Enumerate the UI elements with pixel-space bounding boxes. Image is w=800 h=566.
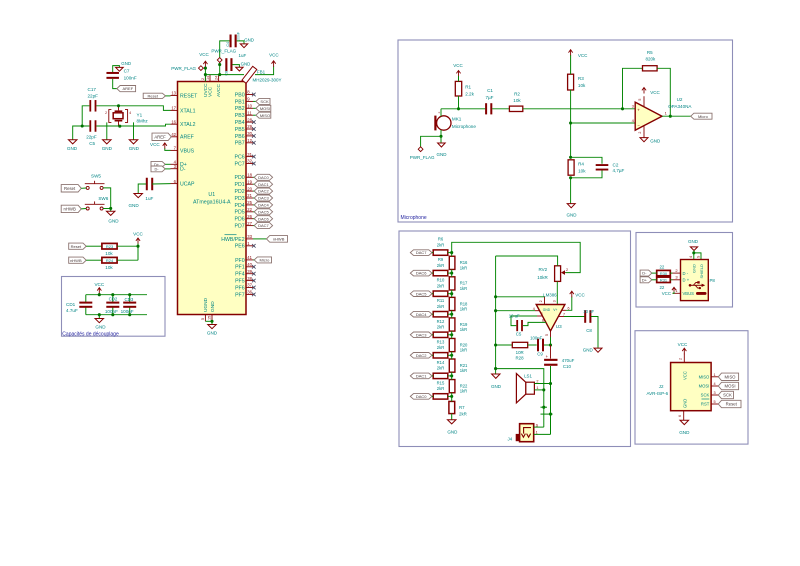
wire UCAP	[152, 183, 171, 185]
svg-text:AVR-ISP-6: AVR-ISP-6	[647, 391, 669, 396]
wire R23 to VCC	[117, 245, 138, 247]
junction ladder DAC0	[450, 395, 453, 398]
U1 right pin 22 PD5	[246, 211, 253, 213]
svg-text:GND: GND	[207, 331, 218, 336]
junction ladder DAC7	[450, 251, 453, 254]
svg-text:R23: R23	[106, 244, 114, 249]
svg-text:2: 2	[539, 300, 543, 302]
svg-text:VCC: VCC	[133, 232, 143, 237]
junction jack stub	[549, 413, 552, 416]
resistor R22 1kR	[449, 380, 455, 393]
svg-text:ATmega16U4-A: ATmega16U4-A	[193, 199, 231, 205]
ferrite bead FB1	[242, 66, 257, 83]
svg-text:CD1: CD1	[66, 302, 76, 307]
svg-text:10k: 10k	[105, 251, 113, 256]
wire bias to opamp -in	[571, 122, 636, 124]
svg-text:42: 42	[171, 132, 176, 137]
wire XTAL2 line	[96, 124, 170, 126]
ground under switches	[110, 208, 112, 211]
svg-text:GND: GND	[108, 219, 119, 224]
svg-text:GND: GND	[95, 324, 106, 329]
svg-text:GND: GND	[102, 146, 113, 151]
resistor R11 2kR	[433, 312, 448, 317]
svg-text:Y1: Y1	[137, 112, 143, 117]
resistor R14 2kR	[433, 373, 448, 378]
svg-text:1kR: 1kR	[460, 327, 467, 332]
svg-text:VCC: VCC	[150, 142, 160, 147]
wire Reset to SW5	[81, 187, 86, 189]
svg-text:C5: C5	[516, 331, 522, 336]
Y1 pin 3 wire	[118, 122, 120, 127]
wire SW6 out	[103, 208, 111, 210]
resistor R21 1kR	[449, 359, 455, 372]
svg-text:DAC0: DAC0	[416, 394, 427, 399]
global label SCK at PB1	[253, 100, 256, 102]
global label MOSI isp	[718, 382, 738, 389]
svg-text:D-: D-	[180, 167, 186, 173]
svg-text:U1: U1	[208, 192, 215, 198]
U1 right pin 25 PD4	[246, 204, 253, 206]
wire MK1 bottom	[440, 130, 442, 136]
global label Reset at SW5	[61, 185, 81, 192]
J4 pin S	[534, 426, 544, 428]
svg-text:MOSI: MOSI	[725, 384, 736, 389]
U1 left pin 42 AREF	[171, 136, 178, 138]
U1 right pin 32 PC7	[246, 163, 253, 165]
global label D- usb	[640, 270, 652, 276]
svg-text:SHIELD: SHIELD	[699, 264, 704, 279]
svg-text:VCC: VCC	[208, 86, 214, 97]
svg-text:DAC7: DAC7	[416, 250, 427, 255]
svg-text:SW5: SW5	[91, 174, 101, 179]
svg-text:MOSI: MOSI	[260, 106, 270, 111]
capacitor C9 100nF zobel	[537, 339, 539, 352]
wire R5 to output	[657, 68, 670, 116]
svg-text:AVCC: AVCC	[216, 83, 222, 97]
resistor R10 2kR	[433, 291, 448, 296]
svg-text:4,7µF: 4,7µF	[613, 168, 625, 173]
svg-text:10k: 10k	[578, 83, 586, 88]
svg-text:PD0: PD0	[235, 175, 245, 181]
svg-text:2kR: 2kR	[437, 345, 444, 350]
svg-text:VCC: VCC	[662, 291, 671, 296]
ground above C7	[113, 66, 120, 72]
svg-text:Microphone: Microphone	[401, 215, 427, 221]
wire mic line to C1	[441, 108, 485, 110]
J2 GND pin	[683, 411, 685, 421]
resistor R17 1kR	[449, 277, 455, 290]
wire RV2 top to rail	[496, 256, 558, 266]
U3 pin 5 output	[550, 331, 552, 337]
svg-text:C8: C8	[586, 328, 592, 333]
junction AVCC rail	[218, 73, 221, 76]
svg-text:R9: R9	[438, 257, 444, 262]
capacitor C10 470uF	[550, 345, 552, 359]
Y1 case pins to ground	[106, 122, 108, 139]
svg-text:VCC: VCC	[269, 52, 279, 57]
junction feedback tap	[621, 107, 624, 110]
svg-text:10R: 10R	[516, 350, 524, 355]
svg-text:U2: U2	[677, 97, 683, 102]
junction U1 GND	[210, 320, 213, 323]
svg-text:11: 11	[247, 110, 252, 115]
resistor R20 1kR	[449, 338, 455, 351]
wire U1 ground pins join	[205, 320, 212, 322]
svg-text:2kR: 2kR	[437, 325, 444, 330]
junction VCC flag	[204, 67, 207, 70]
ground under crystal left	[103, 140, 112, 144]
svg-text:37: 37	[247, 283, 252, 288]
ground under crystal right	[129, 140, 138, 144]
wire AVCC power rail	[205, 74, 244, 76]
svg-text:28: 28	[247, 117, 252, 122]
svg-text:7: 7	[563, 313, 565, 317]
ground left of caps	[68, 140, 77, 144]
svg-text:33: 33	[247, 234, 252, 239]
svg-text:PB6: PB6	[235, 134, 245, 140]
ground microphone	[440, 136, 442, 143]
wire ladder output to RV2	[452, 242, 581, 272]
svg-text:100nF: 100nF	[530, 336, 543, 341]
no-connect PF1	[252, 265, 256, 269]
svg-text:6: 6	[678, 415, 682, 417]
svg-text:470uF: 470uF	[562, 358, 575, 363]
global label DAC1 at PD1	[253, 183, 254, 185]
note box USB	[636, 233, 733, 308]
U1 right pin 9 PB1	[246, 100, 253, 102]
global label Micro output	[691, 113, 712, 119]
PWR_FLAG microphone	[418, 147, 423, 152]
wire C8 to ground	[591, 317, 598, 349]
svg-text:10kR: 10kR	[537, 275, 548, 280]
wire DAC2 row	[432, 354, 433, 356]
global label DAC7 at PD7	[253, 225, 254, 227]
svg-text:PF5: PF5	[235, 279, 245, 285]
global label nHWB at SW6	[61, 205, 81, 212]
J4 pin 1	[534, 433, 551, 435]
svg-text:RV2: RV2	[539, 267, 548, 272]
no-connect PC6	[252, 155, 256, 159]
svg-text:nHWB: nHWB	[70, 258, 82, 263]
wire SW5 to SW6 junction	[103, 188, 111, 208]
svg-text:RST: RST	[701, 402, 710, 407]
svg-text:PD2: PD2	[235, 189, 245, 195]
U1 right pin 27 PD7	[246, 225, 253, 227]
wire C2 bottom join R4	[571, 171, 602, 178]
svg-text:MISO: MISO	[260, 113, 270, 118]
U1 left pin 4 D+	[171, 163, 178, 165]
ground below U1	[211, 321, 213, 324]
svg-text:GND: GND	[129, 146, 140, 151]
resistor R9 2kR	[433, 270, 448, 275]
global label Reset pullup	[69, 243, 87, 249]
junction ladder DAC4	[450, 313, 453, 316]
junction ladder DAC6	[450, 272, 453, 275]
global label Micro at PF0	[253, 259, 254, 261]
svg-text:22pF: 22pF	[88, 94, 99, 99]
svg-text:VCC: VCC	[683, 371, 688, 380]
resistor R1 2.2k	[455, 81, 461, 96]
wire VCC down to UVCC	[204, 67, 206, 82]
U1 right pin 37 PF6	[246, 287, 253, 289]
global label MOSI at PB2	[253, 107, 256, 109]
global label D+ usb	[640, 277, 652, 283]
global label Reset isp	[718, 400, 741, 407]
svg-text:R30: R30	[660, 271, 668, 276]
wire C1 to R2	[492, 108, 509, 110]
svg-text:Reset: Reset	[726, 402, 738, 407]
global label nHWB pullup	[69, 257, 87, 263]
no-connect PB5	[252, 127, 256, 131]
svg-text:21: 21	[247, 193, 252, 198]
LS1 pin 1	[534, 389, 543, 391]
wire RV2 wiper down to +in	[556, 282, 558, 305]
wire speaker return from rail	[496, 369, 544, 428]
svg-text:38: 38	[247, 276, 252, 281]
junction USB ground	[692, 251, 695, 254]
svg-text:8: 8	[542, 319, 544, 323]
capacitor C8 1uF	[225, 58, 227, 71]
U1 right pin 11 PB3	[246, 114, 253, 116]
svg-text:1kR: 1kR	[460, 368, 467, 373]
junction decap rails	[98, 293, 101, 296]
junction switches	[109, 207, 112, 210]
global label nHWB at PE2	[253, 238, 267, 240]
svg-text:AREF: AREF	[123, 86, 134, 91]
speaker LS1	[526, 382, 535, 394]
U1 top pin 24 AVCC	[218, 75, 220, 82]
svg-text:PD1: PD1	[235, 182, 245, 188]
svg-text:LS1: LS1	[524, 374, 532, 379]
ground ladder	[447, 420, 456, 424]
svg-text:nHWB: nHWB	[273, 237, 285, 242]
wire R24 to VCC	[117, 259, 138, 261]
svg-text:2kR: 2kR	[437, 263, 444, 268]
svg-text:+: +	[438, 111, 440, 115]
RST overline	[702, 398, 710, 400]
svg-text:DAC2: DAC2	[258, 189, 269, 194]
svg-text:5: 5	[201, 318, 205, 320]
svg-text:2kR: 2kR	[459, 411, 467, 416]
J2 pin 4 MOSI	[711, 385, 718, 387]
svg-text:C2: C2	[613, 162, 619, 167]
junction ladder DAC5	[450, 292, 453, 295]
USB pin 3 D+	[673, 279, 681, 281]
svg-text:12: 12	[247, 138, 252, 143]
capacitor C4 top	[230, 35, 232, 48]
U3 pin 1 gain	[537, 315, 543, 317]
svg-text:R3: R3	[578, 76, 584, 81]
audio amplifier U3 LM386	[536, 305, 565, 331]
svg-text:100nF: 100nF	[105, 309, 118, 314]
U1 right pin 19 PD1	[246, 183, 253, 185]
svg-text:C7: C7	[124, 69, 130, 74]
svg-text:15: 15	[208, 316, 212, 320]
svg-text:GND: GND	[567, 213, 578, 218]
wire R30 to pin2	[670, 272, 672, 274]
svg-text:PB4: PB4	[235, 120, 245, 126]
svg-text:XTAL2: XTAL2	[180, 122, 196, 128]
no-connect PF7	[252, 293, 256, 297]
svg-text:6: 6	[568, 307, 570, 311]
svg-text:DAC3: DAC3	[416, 332, 427, 337]
svg-text:25: 25	[247, 200, 252, 205]
svg-text:PWR_FLAG: PWR_FLAG	[410, 155, 435, 160]
svg-text:GND: GND	[447, 429, 458, 434]
svg-text:24: 24	[214, 76, 218, 80]
svg-text:Capacités de découplage: Capacités de découplage	[62, 331, 119, 337]
svg-text:VCC: VCC	[199, 52, 209, 57]
capacitor C7 100nF	[106, 72, 119, 74]
svg-text:R31: R31	[660, 278, 667, 283]
U1 right pin 40 PF1	[246, 266, 253, 268]
svg-text:GND: GND	[683, 399, 688, 408]
wire DAC4 row	[432, 313, 433, 315]
svg-text:27: 27	[247, 221, 252, 226]
junction rail return	[494, 367, 497, 370]
resistor R3 10k	[568, 74, 574, 90]
ground mic divider	[570, 178, 572, 204]
svg-text:D -: D -	[683, 271, 689, 276]
wire R28 to C9	[528, 344, 537, 346]
svg-text:2kR: 2kR	[437, 284, 444, 289]
svg-text:PF0: PF0	[235, 258, 245, 264]
global label DAC2 at PD2	[253, 190, 254, 192]
svg-text:820k: 820k	[646, 56, 657, 61]
svg-text:PF6: PF6	[235, 285, 245, 291]
svg-text:D +: D +	[683, 278, 690, 283]
ground at UCAP cap	[134, 194, 143, 198]
potentiometer RV2 10kR	[555, 266, 561, 282]
resistor R12 2kR	[433, 332, 448, 337]
wire DAC6 row	[432, 272, 433, 274]
global label DAC4	[410, 311, 432, 317]
wire DAC1 row	[432, 375, 433, 377]
J2 pin 5 RST	[711, 403, 718, 405]
USB slot mark	[696, 292, 707, 295]
svg-text:R24: R24	[106, 258, 114, 263]
junction speaker pin1	[542, 388, 545, 391]
J2 pin 1 MISO	[711, 376, 718, 378]
svg-text:10: 10	[247, 104, 252, 109]
svg-text:4: 4	[129, 111, 131, 115]
svg-text:R14: R14	[437, 360, 445, 365]
svg-text:GND: GND	[241, 62, 251, 67]
svg-text:CD2: CD2	[109, 297, 118, 302]
svg-text:RESET: RESET	[180, 93, 198, 99]
svg-text:PF1: PF1	[235, 265, 245, 271]
svg-text:GND: GND	[121, 61, 131, 66]
U1 left pin 6 UCAP	[171, 183, 178, 185]
U3 pin 6 VCC	[562, 309, 566, 311]
svg-text:R4: R4	[578, 161, 584, 166]
svg-text:39: 39	[247, 269, 252, 274]
svg-text:DAC1: DAC1	[416, 374, 427, 379]
svg-text:36: 36	[247, 290, 252, 295]
capacitor C2 4.7uF	[596, 164, 609, 166]
svg-text:GND: GND	[128, 203, 139, 208]
svg-text:AREF: AREF	[180, 135, 194, 141]
svg-text:29: 29	[247, 124, 252, 129]
note box AVR-ISP	[635, 331, 748, 444]
wire DAC3 row	[432, 334, 433, 336]
wire caps left rail to ground	[82, 106, 89, 126]
global label DAC5	[410, 291, 432, 297]
capacitor C17 22pF	[89, 100, 91, 112]
svg-text:VCC: VCC	[578, 53, 588, 58]
svg-text:3: 3	[714, 391, 716, 395]
svg-text:PWR_FLAG: PWR_FLAG	[171, 66, 196, 71]
wire zobel from rail	[496, 344, 513, 346]
U1 right pin 21 PD3	[246, 197, 253, 199]
wire feedback up	[623, 68, 643, 109]
junction MK1 ground	[439, 135, 442, 138]
svg-text:C5: C5	[89, 141, 95, 146]
svg-text:PD6: PD6	[235, 217, 245, 223]
junction ladder DAC3	[450, 333, 453, 336]
svg-text:PF4: PF4	[235, 272, 245, 278]
junction C8 left	[218, 63, 221, 66]
svg-text:GND: GND	[679, 430, 690, 435]
wire C4 left	[220, 41, 230, 75]
svg-text:nHWB: nHWB	[63, 207, 76, 212]
wire decap top rail	[86, 294, 147, 296]
svg-text:1kR: 1kR	[460, 286, 467, 291]
svg-text:14: 14	[206, 76, 210, 80]
svg-text:DAC4: DAC4	[416, 312, 427, 317]
U1 left pin 13 RESET	[171, 95, 178, 97]
svg-text:MISO: MISO	[699, 375, 710, 380]
svg-text:100nF: 100nF	[237, 32, 241, 42]
wire D- to pin 3	[165, 168, 170, 170]
wire nHWB to R24	[86, 259, 102, 261]
svg-text:DAC2: DAC2	[416, 353, 427, 358]
resistor R2 10k	[509, 106, 522, 111]
resistor R30 22	[657, 270, 671, 275]
wire C9 to output	[544, 344, 551, 346]
svg-text:R5: R5	[647, 50, 653, 55]
ATmega16U4 MCU U1 body	[178, 82, 247, 315]
svg-text:PF7: PF7	[235, 292, 245, 298]
svg-text:PC7: PC7	[235, 161, 245, 167]
junction bias R4	[569, 156, 572, 159]
svg-text:UCAP: UCAP	[180, 182, 195, 188]
svg-text:GND: GND	[650, 138, 661, 143]
global label AREF at pin 42	[152, 133, 171, 140]
no-connect PF5	[252, 279, 256, 283]
svg-text:7µF: 7µF	[485, 95, 493, 100]
wire DAC7 row	[432, 252, 433, 254]
svg-text:U3: U3	[556, 324, 562, 329]
svg-text:26: 26	[247, 214, 252, 219]
svg-text:1kR: 1kR	[460, 348, 467, 353]
wire Reset to R23	[86, 245, 102, 247]
svg-text:GND: GND	[244, 37, 254, 42]
junction ladder DAC2	[450, 354, 453, 357]
svg-text:C9: C9	[537, 351, 543, 356]
svg-text:5: 5	[545, 334, 549, 336]
svg-text:DAC3: DAC3	[258, 196, 269, 201]
U1 right pin 41 PF0	[246, 259, 253, 261]
svg-text:Reset: Reset	[148, 94, 159, 99]
svg-text:100nF: 100nF	[124, 75, 137, 80]
wire FB1 to VCC	[255, 66, 274, 74]
svg-text:22: 22	[247, 207, 252, 212]
svg-text:R7: R7	[459, 405, 465, 410]
junction output zobel	[549, 343, 552, 346]
global label MISO isp	[718, 373, 738, 380]
svg-text:8Mhz: 8Mhz	[137, 119, 149, 124]
